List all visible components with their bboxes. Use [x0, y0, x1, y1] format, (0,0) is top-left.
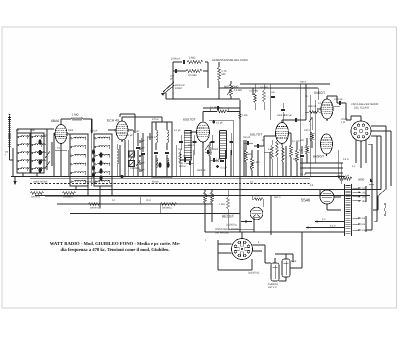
tube V3 6SS7GT: [197, 122, 210, 142]
coupling capacitor 500pF: [247, 141, 249, 145]
svg-text:5 V: 5 V: [352, 165, 356, 168]
svg-text:0,1 μF: 0,1 μF: [126, 134, 133, 137]
resistor 500000 lower: [160, 203, 177, 206]
svg-text:110: 110: [362, 187, 366, 190]
extra wires detector AF section: [243, 140, 245, 177]
wire 6BA6 plate: [60, 119, 62, 125]
svg-text:1 MΩ: 1 MΩ: [219, 203, 225, 206]
svg-text:1 MΩ: 1 MΩ: [216, 158, 222, 161]
svg-text:MΩ: MΩ: [222, 73, 226, 76]
svg-text:ant: ant: [5, 151, 9, 154]
chassis ground bus: [11, 176, 345, 178]
svg-text:6,3 V: 6,3 V: [330, 224, 336, 227]
svg-text:1 MΩ: 1 MΩ: [254, 161, 260, 164]
svg-text:WATT RADIO - Mod. GIUBILEO FON: WATT RADIO - Mod. GIUBILEO FONO - Media …: [50, 241, 181, 247]
supply bus wire B+: [30, 189, 381, 191]
capacitor pair below 6SS7: [207, 150, 209, 154]
svg-text:140: 140: [362, 196, 367, 199]
tuning capacitor C1 variable: [46, 138, 48, 170]
svg-text:ECH 43: ECH 43: [107, 119, 119, 123]
oscillator padder trimmer 2: [129, 161, 135, 167]
interstage coil bank L4: [94, 134, 112, 186]
wire 6E5GT to heater bus: [253, 218, 255, 232]
svg-text:0,02 μF: 0,02 μF: [284, 114, 292, 117]
T1 secondary winding: [167, 130, 169, 143]
AF vertical resistor R21: [276, 141, 279, 157]
resistor 2 Mohm phono: [187, 60, 203, 63]
svg-text:0,5 MΩ: 0,5 MΩ: [234, 89, 242, 92]
heater wire bus: [57, 203, 212, 205]
svg-text:125: 125: [362, 191, 367, 194]
wire V3 plate: [202, 112, 204, 122]
resistor 220 ohm 1W: [338, 177, 352, 180]
volume trimmer under V3: [205, 145, 209, 150]
tube V7 6E5GT magic eye: [250, 207, 263, 220]
svg-text:500 Ω: 500 Ω: [274, 196, 281, 199]
resistor 1 Mohm in bus wire: [239, 112, 241, 119]
antenna down-lead ladder: [9, 116, 11, 148]
connection dots on buses: [60, 176, 62, 178]
wire socket top to bus: [241, 232, 243, 239]
oscillator padder capacitors: [136, 147, 140, 149]
wire 6BA6 cathode: [60, 146, 62, 177]
primary tap bar: [365, 186, 367, 202]
svg-text:0,5 MΩ: 0,5 MΩ: [188, 74, 196, 77]
decoupling blob capacitors T2: [212, 121, 215, 124]
capacitor 1000 pF plate: [339, 101, 341, 105]
svg-text:6BA6: 6BA6: [51, 119, 59, 123]
pick-up symbol: [162, 82, 175, 95]
mains switch: [378, 189, 386, 196]
svg-text:5000 Ω: 5000 Ω: [148, 136, 156, 139]
svg-text:FONO: FONO: [152, 180, 159, 183]
wire output stage to transformer: [337, 150, 339, 177]
svg-text:1000 pF: 1000 pF: [171, 58, 181, 61]
svg-text:ONDE MEDIE: ONDE MEDIE: [33, 180, 48, 183]
T1 ladder side capacitors: [179, 141, 183, 143]
electrolytic capacitor C31: [282, 259, 290, 277]
svg-text:6V5GT: 6V5GT: [313, 155, 325, 159]
interstage RC network: [192, 150, 194, 177]
svg-text:1 MΩ: 1 MΩ: [72, 114, 79, 117]
wire IF T2 top feed: [203, 107, 240, 109]
IF transformer T2 winding ladder: [219, 131, 221, 159]
svg-text:5000: 5000: [213, 148, 219, 151]
speaker socket viewed from chassis outside: [351, 121, 371, 141]
V3 cathode resistor: [209, 146, 212, 156]
svg-text:10 A: 10 A: [255, 195, 260, 198]
capacitor 100 pF: [175, 69, 177, 73]
svg-text:6SL7GT: 6SL7GT: [250, 133, 262, 137]
heater wire 6.3V with arrow: [317, 221, 345, 223]
AVC bus wire: [45, 196, 212, 198]
svg-text:6E5GT: 6E5GT: [222, 215, 235, 219]
wires electrolytics: [264, 245, 266, 263]
antenna coil bank L1 with wave-change switch: [17, 133, 30, 173]
AF vertical resistor R22: [282, 146, 285, 162]
svg-text:0,1 MΩ: 0,1 MΩ: [292, 140, 300, 143]
svg-text:1000 pF: 1000 pF: [334, 98, 343, 101]
svg-text:ONDE CORTE: ONDE CORTE: [85, 180, 101, 183]
wires from speaker socket to the right: [371, 125, 386, 127]
svg-text:3000 Ω: 3000 Ω: [308, 105, 316, 108]
svg-text:50μF: 50μF: [291, 260, 297, 263]
svg-text:DEL TELAIO: DEL TELAIO: [354, 107, 369, 110]
svg-text:0,1 μF: 0,1 μF: [174, 129, 181, 132]
svg-text:0,1 μF: 0,1 μF: [300, 173, 307, 176]
svg-text:30 Ω: 30 Ω: [146, 199, 151, 202]
resistor 300 ohm cathode V3: [179, 152, 182, 163]
svg-text:0,25 MΩ: 0,25 MΩ: [249, 90, 258, 93]
primary tap arrows: [353, 187, 361, 189]
tube V6 6V5GT lower: [321, 134, 333, 154]
wires bundle right going down: [371, 144, 373, 230]
right-side wire bundle vertical: [376, 136, 378, 222]
wire between coil banks: [90, 119, 92, 186]
resistor 100 ohm 1W: [311, 132, 314, 141]
supply bus wire second: [35, 195, 370, 197]
wires rectifier: [319, 190, 321, 198]
HT lines into transformer: [300, 162, 343, 164]
svg-text:100 pF: 100 pF: [243, 136, 251, 139]
wire vertical feeds into band: [305, 84, 307, 120]
svg-text:160: 160: [362, 200, 367, 203]
svg-text:3000 pF: 3000 pF: [197, 169, 206, 172]
capacitor 0.1uF decoupling V3: [217, 106, 219, 110]
IF transformer T1 shield box: [152, 122, 172, 177]
svg-text:6V5GT: 6V5GT: [314, 91, 326, 95]
svg-text:FONO: FONO: [175, 87, 182, 90]
svg-text:500: 500: [300, 139, 305, 142]
long vertical bus wire: [239, 100, 241, 232]
electrolytic capacitor C30: [271, 263, 279, 281]
diode load resistors: [245, 150, 248, 162]
svg-text:dia frequenza a 470 kc. Tensio: dia frequenza a 470 kc. Tensioni come il…: [61, 247, 170, 253]
tube V5 6V5GT upper: [321, 99, 333, 119]
right bundle lower runs: [371, 144, 373, 230]
svg-text:0,1 μF: 0,1 μF: [210, 106, 217, 109]
resistor 0.75 Mohm vertical: [218, 62, 220, 67]
V4 plate load resistor: [290, 145, 293, 157]
svg-text:3x1500 Ω: 3x1500 Ω: [248, 272, 259, 275]
resistor 0.1 Mohm: [263, 90, 266, 102]
secondary tap arrows: [353, 217, 361, 219]
svg-text:2x1500 μ: 2x1500 μ: [226, 224, 237, 227]
svg-text:450 V Ω: 450 V Ω: [268, 286, 277, 289]
power transformer core: [344, 184, 346, 236]
tube V2 ECH43: [116, 121, 128, 140]
oscillator trimmers: [127, 140, 129, 177]
chassis bus second line: [30, 178, 310, 180]
wires below socket: [355, 140, 357, 163]
svg-text:1 MΩ: 1 MΩ: [242, 114, 248, 117]
resistor 1 Mohm eye grid: [254, 198, 263, 201]
svg-text:5546: 5546: [301, 198, 311, 203]
wire tuning section: [53, 133, 55, 177]
ganged switch dashed link: [30, 183, 310, 185]
wire V5 connections: [326, 96, 328, 99]
antenna coil bank L2: [31, 133, 44, 173]
svg-text:0,1 μF: 0,1 μF: [221, 167, 228, 170]
svg-text:220 Ω, 1 W: 220 Ω, 1 W: [337, 175, 350, 178]
wire phono output to amplifier: [230, 81, 232, 84]
svg-text:500000 μ: 500000 μ: [162, 206, 173, 209]
tube socket bottom view: [232, 239, 253, 260]
svg-text:50 pF: 50 pF: [133, 130, 139, 133]
svg-text:300 Ω: 300 Ω: [188, 144, 194, 147]
T1 primary winding: [156, 130, 158, 143]
potentiometer 0.5 Mohm phono volume: [218, 81, 220, 99]
resistor 50k above T2: [217, 110, 227, 113]
resistor 3000 ohm: [309, 111, 319, 114]
svg-text:6SS7GT: 6SS7GT: [183, 118, 196, 122]
mains plug: [384, 205, 386, 214]
capacitor 1000pF phono coupling: [183, 60, 185, 64]
svg-text:4 B: 4 B: [362, 217, 366, 220]
volume potentiometer: [250, 163, 254, 168]
svg-text:5000: 5000: [293, 158, 299, 161]
heater return long wire: [205, 231, 345, 233]
svg-text:0,5 Ω: 0,5 Ω: [343, 158, 349, 161]
phono subcircuit outline wire: [172, 62, 174, 99]
wires AF input network: [240, 83, 330, 85]
wires below speaker socket to taps: [355, 163, 357, 168]
svg-text:6 B: 6 B: [362, 223, 366, 226]
T1 lower winding pair: [156, 158, 158, 168]
svg-text:50000 Ω: 50000 Ω: [31, 196, 40, 199]
tube V4 6SL7GT: [276, 123, 289, 144]
pilot lamp / fuse: [370, 178, 373, 182]
tone control capacitors: [296, 150, 299, 162]
resistor 500 ohm: [306, 145, 309, 154]
resistor 1 Mohm screen: [71, 117, 83, 120]
coupling capacitor to output: [295, 118, 297, 122]
svg-text:5000: 5000: [68, 129, 74, 132]
trimmer tone feedback: [309, 117, 313, 122]
svg-text:100 Ω: 100 Ω: [304, 129, 311, 132]
wire screen feed: [83, 118, 92, 120]
oscillator band switch contacts: [141, 138, 143, 172]
svg-text:100000 Ω: 100000 Ω: [130, 167, 140, 170]
wire phono second branch: [173, 70, 186, 72]
svg-text:0,5 MΩ: 0,5 MΩ: [244, 153, 252, 156]
T2 side trimmer capacitors: [211, 141, 215, 143]
wire mains to switch: [390, 168, 392, 186]
resistor 50000 ohm dropper: [30, 192, 44, 195]
tube V8 5546 rectifier: [320, 190, 334, 204]
resistor 0.25 Mohm grid feed: [254, 93, 257, 103]
svg-text:500000 μ: 500000 μ: [63, 196, 74, 199]
extra vertical feeds AF: [252, 88, 254, 95]
svg-text:ant: ant: [16, 129, 20, 132]
extra wires oscillator section: [124, 140, 126, 177]
svg-text:5000: 5000: [358, 178, 365, 182]
misc small value labels: [16, 95, 356, 244]
bus wire lower: [70, 213, 240, 215]
oscillator coil L5: [116, 144, 118, 149]
IF transformer T1 secondary ladder: [183, 131, 185, 161]
resistor second dropper: [62, 192, 76, 195]
junction blob on bus: [121, 175, 124, 178]
svg-text:470 kc: 470 kc: [152, 118, 160, 121]
svg-text:0,1 μF: 0,1 μF: [216, 122, 223, 125]
AVC capacitor: [257, 144, 259, 148]
wire antenna to coil bank: [9, 148, 11, 160]
wire bottom section risers: [264, 232, 266, 238]
heater wire second arrow: [308, 227, 345, 229]
oscillator padder trimmer 1: [129, 151, 135, 157]
AF vertical resistor R20: [271, 145, 274, 159]
svg-text:5 V: 5 V: [322, 218, 326, 221]
wire vertical drops from coil banks: [22, 173, 24, 177]
svg-text:100 Ω: 100 Ω: [300, 81, 306, 84]
RF coil bank L3: [70, 134, 88, 186]
tube V1 6BA6: [55, 125, 67, 144]
wire V3 grid cap: [209, 119, 233, 121]
T1 trimmer capacitors: [154, 152, 158, 154]
svg-text:VOCE: VOCE: [341, 118, 348, 121]
resistor 0.5 Mohm: [186, 69, 202, 72]
svg-text:50000 Ω: 50000 Ω: [90, 206, 99, 209]
wire IF1 to 6SS7 couplings: [175, 145, 177, 177]
power transformer windings: [346, 185, 351, 187]
wire V4 grid: [263, 136, 265, 146]
wire T1 top feed: [152, 116, 162, 118]
iron-core slugs in coil assemblies (dark blobs): [38, 139, 169, 180]
resistor 10k vertical pair: [204, 192, 207, 203]
resistor 50000 lower left: [88, 203, 101, 206]
svg-text:2 MΩ: 2 MΩ: [189, 57, 195, 60]
wire ECH43 plate and grids: [121, 117, 123, 121]
decoupling capacitors V3: [184, 158, 186, 162]
svg-text:ALIMENTAZIONE DEL FONO: ALIMENTAZIONE DEL FONO: [212, 59, 248, 62]
ground arrow: [14, 177, 16, 182]
wires to socket view: [218, 243, 232, 245]
secondary tap bar: [365, 216, 367, 232]
